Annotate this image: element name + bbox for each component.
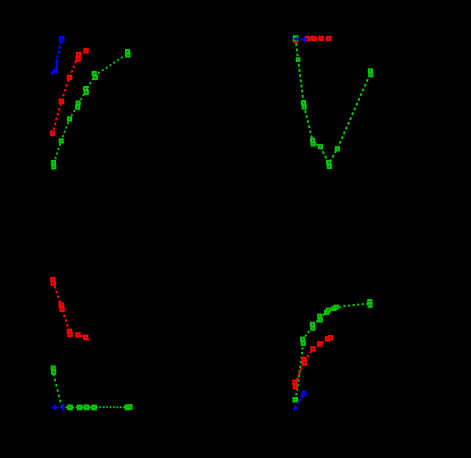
- series C-green vertical line: [53, 374, 63, 407]
- series A-green line: [54, 54, 128, 164]
- series D-green markers: [294, 398, 297, 401]
- series B-blue plus marker: [302, 36, 308, 42]
- series C-blue arrow: [55, 406, 63, 408]
- series B-red line: [296, 39, 332, 40]
- series D-red line: [295, 338, 329, 384]
- subplot C bottom-left: [51, 278, 131, 411]
- series D-blue marker: [302, 391, 305, 398]
- series A-blue arrowhead: [50, 68, 58, 75]
- series D-green line: [295, 303, 369, 399]
- series D-blue arrow: [297, 399, 302, 404]
- series C-red line: [53, 281, 86, 337]
- series A-red line: [53, 51, 86, 133]
- series B-green markers: [294, 36, 297, 39]
- series C-green horizontal line: [62, 406, 126, 408]
- series A-green markers: [52, 161, 55, 164]
- series B-red markers: [294, 39, 297, 42]
- series A-blue line: [57, 41, 61, 58]
- series C-red markers: [51, 278, 54, 281]
- series B-blue arrow: [296, 38, 304, 40]
- series B-green line: [296, 38, 371, 164]
- series D-red markers: [293, 381, 296, 384]
- series A-red markers: [84, 49, 87, 52]
- subplot A top-left: [50, 37, 129, 169]
- subplot D bottom-right: [293, 300, 372, 411]
- series C-green markers: [52, 366, 55, 369]
- subplot B top-right: [293, 36, 372, 168]
- series A-blue marker: [60, 37, 63, 40]
